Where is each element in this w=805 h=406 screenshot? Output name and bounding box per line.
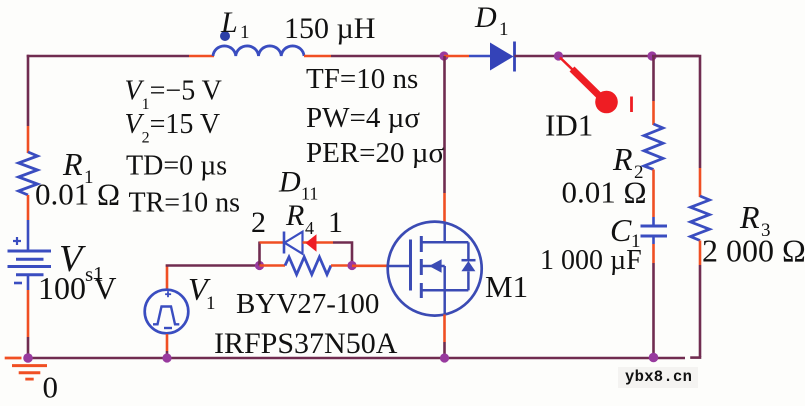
svg-text:BYV27-100: BYV27-100: [236, 288, 379, 320]
svg-text:ybx8.cn: ybx8.cn: [625, 368, 692, 386]
svg-text:ID1: ID1: [545, 108, 593, 143]
svg-text:D: D: [278, 166, 301, 199]
current probe ID1 bulb: [595, 91, 618, 114]
wire R2 top lead (orange): [652, 101, 655, 125]
svg-text:D: D: [474, 1, 497, 34]
current probe ID1 stem: [560, 58, 575, 73]
node gate net left junction: [255, 261, 264, 270]
resistor R4: [285, 257, 331, 275]
wire R2 branch upper (maroon): [652, 56, 655, 101]
wire inductor left lead (orange): [189, 55, 214, 58]
svg-text:2 000 Ω: 2 000 Ω: [702, 233, 805, 269]
node C1 bottom junction: [649, 353, 659, 363]
diode D1 triangle: [490, 43, 514, 71]
wire left rail lower (maroon): [27, 337, 30, 358]
wire left rail upper (maroon): [27, 55, 30, 126]
pulse source V1 minus: [164, 327, 172, 329]
svg-text:100 V: 100 V: [38, 270, 117, 306]
node ground junction: [23, 353, 33, 363]
wire V1 to bottom rail (maroon): [166, 351, 169, 358]
diode D1 cathode bar: [513, 42, 516, 72]
battery Vs1 minus sign: [14, 282, 22, 285]
svg-text:R: R: [612, 141, 633, 177]
wire drain vertical (maroon): [443, 56, 446, 193]
wire R4 right lead (orange): [331, 264, 349, 267]
wire C1 branch to bottom rail (maroon): [652, 263, 655, 358]
svg-text:4: 4: [305, 218, 314, 238]
svg-text:C: C: [610, 212, 632, 248]
svg-text:150 µH: 150 µH: [284, 12, 375, 45]
capacitor C1 bottom lead (blue): [652, 236, 655, 244]
svg-text:1: 1: [206, 293, 216, 314]
svg-text:0.01 Ω: 0.01 Ω: [35, 177, 120, 212]
wire R1 top lead (red): [27, 126, 30, 153]
wire V1 to gate net (maroon): [166, 264, 260, 267]
wire battery bottom lead (red): [27, 290, 30, 337]
inductor L1: [213, 46, 304, 56]
svg-text:L: L: [220, 6, 238, 39]
wire D1 anode lead (orange): [444, 55, 469, 58]
wire R3 top lead (orange): [699, 168, 702, 197]
wire source lead (red): [443, 315, 446, 343]
svg-text:R: R: [285, 199, 304, 232]
diode D11 cathode bar: [283, 232, 286, 254]
battery Vs1 top lead (blue): [27, 220, 30, 251]
svg-text:2: 2: [251, 206, 266, 239]
wire right rail top (maroon): [652, 56, 700, 168]
node gate net right junction: [347, 261, 356, 270]
wire D11 right lead (orange): [303, 241, 334, 244]
svg-text:1: 1: [499, 19, 509, 40]
wire R2 bottom lead (orange): [652, 170, 655, 218]
wire R4 left lead (orange): [260, 264, 286, 267]
mosfet M1 body diode triangle: [461, 261, 475, 271]
svg-text:TD=0 µs: TD=0 µs: [126, 151, 227, 182]
watermark background: [618, 367, 698, 388]
svg-text:1 000 µF: 1 000 µF: [540, 245, 642, 276]
current direction arrow on D11 (red): [306, 234, 317, 252]
wire drain vertical (red): [443, 193, 446, 223]
mosfet M1 substrate arrow: [429, 259, 442, 272]
wire inductor right lead (orange): [304, 55, 331, 58]
svg-text:1: 1: [328, 206, 343, 239]
pulse source V1 circle: [145, 290, 189, 334]
ground symbol: [5, 358, 47, 379]
pulse source V1 plus: [165, 291, 171, 297]
current probe ID1 tick: [630, 97, 633, 113]
wire C1 bottom (orange): [652, 244, 655, 263]
svg-text:0.01 Ω: 0.01 Ω: [562, 175, 647, 210]
pulse source V1 waveform: [153, 307, 179, 325]
pulse source V1 top lead (red): [166, 265, 169, 290]
wire D11 to node 1 (maroon): [333, 243, 352, 266]
wire R3 bottom lead (orange): [699, 241, 702, 266]
battery Vs1 plus sign: [13, 237, 21, 245]
wire top rail left (maroon): [27, 55, 189, 58]
wire source to bottom rail (maroon): [443, 342, 446, 358]
wire gate lead (orange): [352, 264, 389, 267]
wire D11 anode lead (orange): [260, 241, 286, 244]
diode D11 triangle: [285, 232, 303, 254]
wire bottom rail (maroon): [28, 357, 685, 360]
capacitor C1 plates: [641, 225, 668, 228]
svg-text:PW=4 µσ: PW=4 µσ: [306, 102, 420, 134]
svg-text:PER=20 µσ: PER=20 µσ: [306, 137, 444, 169]
svg-text:M1: M1: [485, 269, 528, 304]
svg-text:0: 0: [43, 370, 59, 405]
svg-text:1: 1: [240, 22, 250, 43]
node drain junction: [439, 51, 448, 60]
mosfet M1 circle: [388, 222, 482, 316]
wire D11 left vertical (maroon): [258, 242, 261, 266]
capacitor C1 top lead (blue): [652, 217, 655, 226]
svg-text:TF=10 ns: TF=10 ns: [306, 63, 418, 95]
svg-text:IRFPS37N50A: IRFPS37N50A: [214, 327, 398, 360]
node source junction: [440, 353, 449, 362]
resistor R3: [691, 196, 710, 241]
wire D1 anode lead (blue): [469, 55, 491, 58]
battery Vs1 plates: [8, 251, 52, 290]
inductor L1 polarity dot: [220, 31, 230, 41]
svg-text:R: R: [739, 199, 760, 235]
wire R1 bottom lead (red): [27, 195, 30, 220]
node V1 bottom junction: [162, 353, 171, 362]
wire R3 to bottom rail (maroon): [699, 265, 702, 357]
node R2 branch junction: [647, 51, 656, 60]
node ID1 probe junction: [554, 51, 563, 60]
mosfet M1 internals: [388, 222, 476, 315]
wire V1 bottom lead (red): [166, 334, 169, 351]
svg-text:TR=10 ns: TR=10 ns: [129, 188, 240, 219]
current probe ID1 thick stem: [572, 69, 601, 98]
wire top rail right (maroon): [515, 55, 700, 58]
wire top rail to drain node (maroon): [331, 55, 445, 58]
resistor R2: [644, 124, 663, 170]
resistor R1: [19, 152, 38, 195]
